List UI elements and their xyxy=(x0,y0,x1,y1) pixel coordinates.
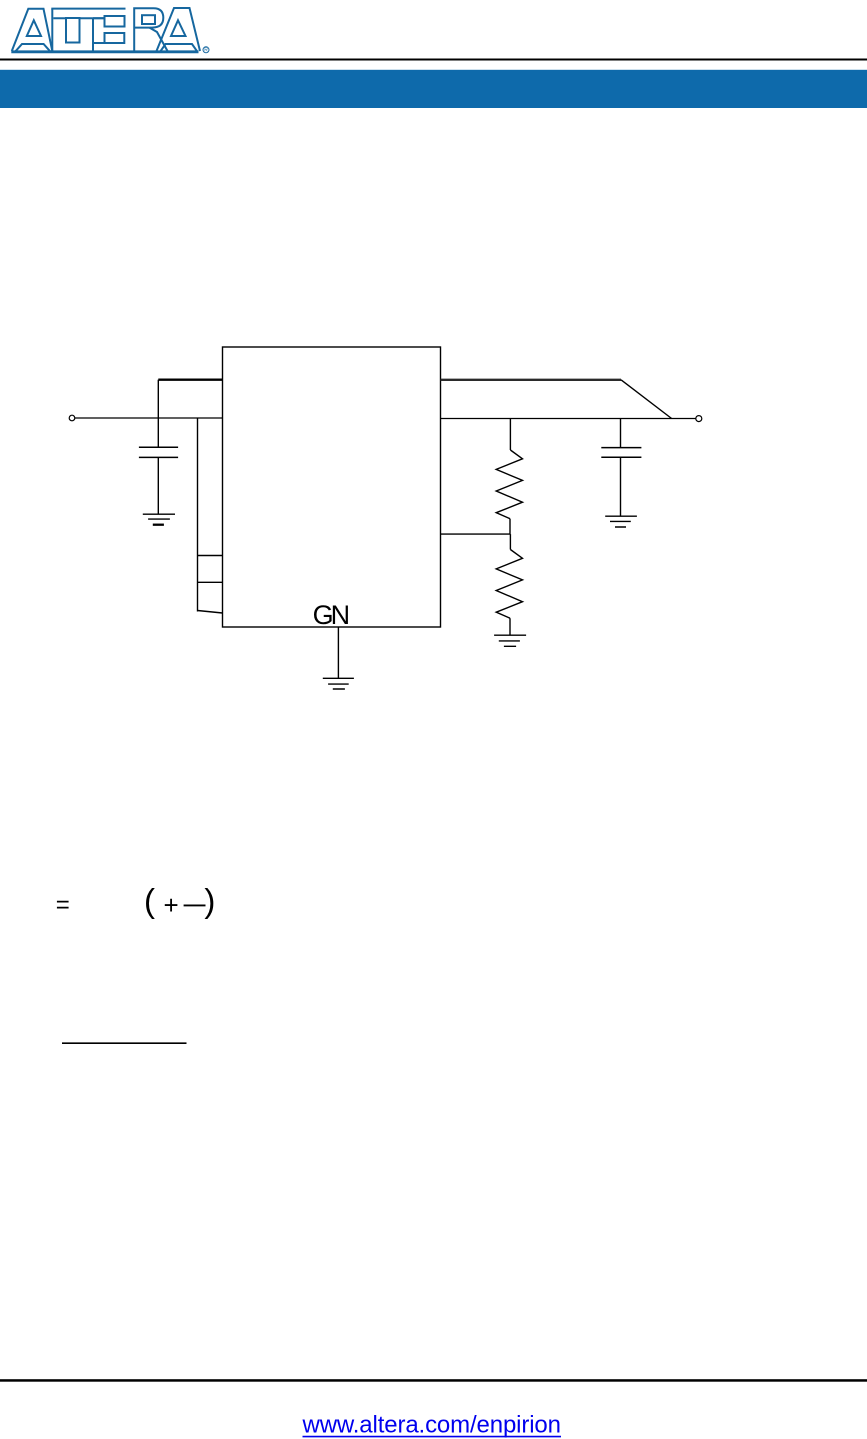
svg-text:): ) xyxy=(204,882,215,919)
letter A2 inner triangle xyxy=(171,20,186,36)
resistor R1 zigzag xyxy=(496,450,522,519)
header hairline rule xyxy=(0,59,867,61)
letter E top arm edge xyxy=(93,17,105,19)
letter A2 foot xyxy=(161,44,198,51)
capacitor C2 plates xyxy=(601,448,641,458)
letter E bottom edge xyxy=(93,42,105,44)
letter R inner hole xyxy=(142,15,155,24)
ground C1 xyxy=(143,514,175,519)
output terminal xyxy=(696,416,702,422)
header blue banner bar xyxy=(0,70,867,108)
letter R leg xyxy=(150,28,168,51)
letter E spine xyxy=(92,18,94,52)
pin rung 3 slanted xyxy=(198,611,223,614)
letter E lower arm xyxy=(105,33,125,43)
wire vertical to C1 xyxy=(157,380,159,448)
input terminal xyxy=(69,415,75,421)
wire thick VOUT top xyxy=(441,379,622,381)
svg-text:R: R xyxy=(204,48,208,54)
svg-text:GN: GN xyxy=(313,600,351,630)
resistor R2 zigzag xyxy=(496,550,522,619)
resistor R2 bottom lead xyxy=(509,618,511,635)
wire input xyxy=(75,417,223,419)
letter T crossbar bottom segments xyxy=(53,17,104,19)
capacitor C1 plates xyxy=(139,447,178,457)
letter A1 outline xyxy=(12,9,53,51)
svg-text:=: = xyxy=(56,892,70,919)
wire thick AVIN xyxy=(158,379,222,381)
wire enable vertical xyxy=(197,418,199,612)
letter L stem xyxy=(51,9,53,51)
footnote underline rule xyxy=(62,1042,187,1044)
resistor R2 top lead xyxy=(509,534,511,549)
Altera logo wordmark xyxy=(11,8,209,53)
svg-text:(: ( xyxy=(144,882,155,919)
svg-text:+: + xyxy=(164,890,179,920)
letter A1 foot xyxy=(16,44,50,51)
ground U1 xyxy=(323,678,354,689)
letter A1 inner triangle xyxy=(27,20,41,36)
footer rule xyxy=(0,1379,867,1382)
letter T stem xyxy=(66,18,80,43)
pin rung 2 xyxy=(198,581,223,583)
resistor R1 top lead xyxy=(509,419,511,451)
ground C1 thick bottom stroke xyxy=(153,524,164,526)
ground R2 xyxy=(494,635,526,646)
capacitor C2 lower lead xyxy=(620,457,622,516)
op-amp U1 regulator block xyxy=(223,347,441,627)
letter T crossbar top xyxy=(51,8,125,10)
logo baseline bar xyxy=(11,50,198,53)
footer link underline xyxy=(303,1436,562,1438)
letter A2 outline xyxy=(157,8,201,51)
svg-text:www.altera.com/enpirion: www.altera.com/enpirion xyxy=(302,1412,562,1439)
capacitor C1 lower lead xyxy=(157,457,159,514)
registered trademark symbol xyxy=(203,47,209,53)
pin rung 1 xyxy=(198,555,223,557)
wire diagonal xyxy=(621,380,672,419)
letter R outline xyxy=(134,8,163,51)
equation fraction bar xyxy=(184,904,206,906)
resistor R1 bottom lead xyxy=(509,519,511,534)
wire feedback junction xyxy=(441,533,511,535)
ground C2 xyxy=(605,516,637,527)
letter E upper arm xyxy=(105,16,125,27)
wire GND stub xyxy=(337,627,339,678)
capacitor C2 top lead xyxy=(620,419,622,448)
wire output xyxy=(441,418,696,420)
